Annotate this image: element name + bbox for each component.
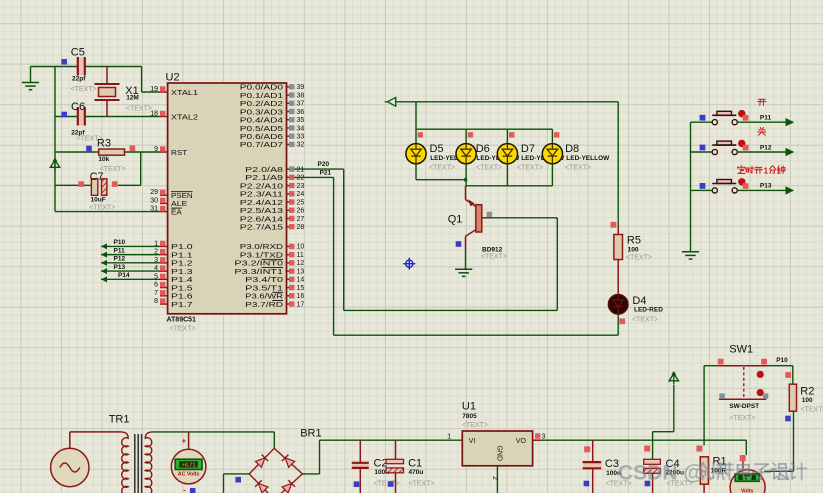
svg-text:TR1: TR1: [109, 414, 130, 426]
pin 21 P2.0/A8: [289, 166, 294, 171]
svg-text:U2: U2: [166, 72, 180, 84]
LED top bus: [415, 102, 417, 144]
wire RST node vertical: [140, 152, 142, 185]
svg-text:XTAL2: XTAL2: [171, 114, 198, 121]
svg-text:P0.1/AD1: P0.1/AD1: [240, 93, 283, 100]
resistor R5: [614, 227, 623, 295]
svg-text:<TEXT>: <TEXT>: [476, 165, 502, 172]
terminal arrow P11: [786, 119, 793, 126]
svg-text:36: 36: [297, 109, 305, 116]
svg-text:GND: GND: [495, 446, 502, 462]
svg-text:14: 14: [297, 277, 305, 284]
svg-text:16: 16: [297, 293, 305, 300]
svg-text:8: 8: [154, 298, 158, 305]
pin 37 P0.2/AD2: [289, 101, 294, 106]
U1 GND pin 2: [496, 466, 498, 493]
svg-text:AT89C51: AT89C51: [167, 317, 197, 324]
svg-text:P2.3/A11: P2.3/A11: [240, 192, 283, 199]
svg-text:P3.1/TXD: P3.1/TXD: [240, 252, 283, 259]
svg-text:38: 38: [297, 92, 305, 99]
svg-text:P1.4: P1.4: [171, 277, 193, 284]
svg-text:VO: VO: [516, 438, 527, 445]
svg-text:D6: D6: [476, 143, 490, 155]
svg-text:<TEXT>: <TEXT>: [517, 165, 543, 172]
pin 13 P3.3/INT1: [289, 268, 294, 273]
svg-text:P12: P12: [760, 144, 772, 151]
ground G2 (Q1): [455, 269, 472, 276]
capacitor C4 electrolytic: [644, 459, 661, 493]
svg-text:27: 27: [297, 216, 305, 223]
svg-text:18: 18: [150, 111, 158, 118]
label kai (red): [758, 99, 766, 105]
svg-text:D7: D7: [521, 143, 535, 155]
capacitor C2: [352, 440, 369, 493]
push button P12: [712, 140, 745, 155]
pin 9 RST: [160, 146, 165, 151]
capacitor C7 10uF: [55, 184, 91, 186]
svg-text:29: 29: [150, 189, 158, 196]
svg-text:XTAL1: XTAL1: [171, 90, 198, 97]
svg-text:470u: 470u: [409, 469, 424, 476]
svg-text:31: 31: [150, 206, 158, 213]
wire C6 row: [55, 116, 78, 118]
pin 33 P0.6/AD6: [289, 133, 294, 138]
svg-text:37: 37: [297, 101, 305, 108]
wire net P21: [333, 177, 335, 335]
svg-text:30: 30: [150, 197, 158, 204]
svg-text:<TEXT>: <TEXT>: [729, 415, 755, 422]
svg-text:P11: P11: [760, 115, 772, 122]
svg-text:P3.6/WR: P3.6/WR: [245, 294, 283, 301]
ground: [30, 67, 32, 83]
wire TR1 to bridge: [153, 431, 275, 433]
svg-text:P3.0/RXD: P3.0/RXD: [240, 244, 283, 251]
svg-text:15: 15: [297, 285, 305, 292]
svg-text:100: 100: [802, 397, 813, 404]
LED D7 yellow: [497, 144, 517, 164]
pin 8 P1.7: [160, 298, 165, 303]
wire BR1 right to regulator: [302, 473, 319, 475]
wire EA row: [55, 211, 160, 213]
svg-text:P0.3/AD3: P0.3/AD3: [240, 109, 283, 116]
svg-text:P1.2: P1.2: [171, 261, 193, 268]
svg-text:D4: D4: [632, 295, 646, 307]
wire net P13: [101, 270, 160, 272]
resistor R1: [700, 457, 708, 493]
svg-text:P3.2/INT0: P3.2/INT0: [234, 261, 283, 268]
wire AC to TR1: [70, 431, 121, 433]
svg-text:39: 39: [297, 84, 305, 91]
resistor R2: [792, 366, 794, 385]
svg-text:<TEXT>: <TEXT>: [409, 481, 435, 488]
svg-text:P3.5/T1: P3.5/T1: [245, 285, 283, 292]
svg-text:3: 3: [542, 434, 546, 441]
svg-text:P14: P14: [118, 272, 130, 279]
svg-text:P20: P20: [318, 161, 330, 168]
wire Q1 collector to ground: [465, 250, 467, 269]
LED bottom bus: [415, 164, 417, 180]
svg-text:Q1: Q1: [448, 214, 463, 226]
capacitor C1 electrolytic: [386, 440, 404, 493]
svg-text:C6: C6: [71, 101, 85, 113]
LED D4 red: [608, 295, 628, 315]
svg-text:32: 32: [297, 142, 305, 149]
capacitor C6: [78, 107, 85, 126]
svg-text:SW-DPST: SW-DPST: [729, 403, 759, 410]
push button P11: [712, 110, 745, 125]
pin 4 P1.3: [160, 265, 165, 270]
svg-text:SW1: SW1: [729, 344, 753, 356]
wire P2.0 to net: [290, 168, 344, 170]
svg-text:P10: P10: [776, 357, 788, 364]
pin 39 P0.0/AD0: [289, 84, 294, 89]
svg-text:P3.3/INT1: P3.3/INT1: [234, 269, 283, 276]
AC voltage source V1: [51, 432, 89, 487]
pin 32 P0.7/AD7: [289, 142, 294, 147]
svg-text:<TEXT>: <TEXT>: [170, 326, 196, 333]
svg-text:P13: P13: [114, 264, 126, 271]
wire net P14: [101, 278, 160, 280]
svg-text:10k: 10k: [98, 156, 109, 163]
svg-text:P2.7/A15: P2.7/A15: [240, 225, 283, 232]
U2 left pins: [160, 92, 168, 304]
capacitor C5: [78, 57, 85, 76]
svg-text:22pf: 22pf: [72, 76, 86, 83]
svg-text:12: 12: [297, 260, 305, 267]
capacitor C3: [583, 440, 602, 493]
svg-text:P1.7: P1.7: [171, 302, 193, 309]
pin 25 P2.4/A12: [289, 199, 294, 204]
pin 11 P3.1/TXD: [289, 252, 294, 257]
svg-text:ALE: ALE: [171, 201, 188, 208]
pin 3 P1.2: [160, 257, 165, 262]
svg-text:<TEXT>: <TEXT>: [71, 86, 97, 93]
wire R2 bottom to voltmeter: [793, 411, 795, 471]
svg-text:P2.6/A14: P2.6/A14: [240, 216, 283, 223]
svg-text:13: 13: [297, 268, 305, 275]
power arrow VCC 2: [673, 374, 675, 385]
pin 12 P3.2/INT0: [289, 260, 294, 265]
transistor Q1 BD912: [466, 186, 491, 250]
left vertical rail: [54, 67, 56, 212]
svg-text:D8: D8: [565, 143, 579, 155]
pin 26 P2.5/A13: [289, 208, 294, 213]
svg-text:RST: RST: [171, 150, 188, 157]
svg-text:7: 7: [154, 290, 158, 297]
svg-text:1: 1: [764, 167, 769, 176]
svg-text:12M: 12M: [126, 95, 139, 102]
buttons left rail: [690, 122, 692, 252]
svg-text:<TEXT>: <TEXT>: [565, 165, 591, 172]
svg-text:28: 28: [297, 224, 305, 231]
svg-text:PSEN: PSEN: [171, 193, 193, 200]
pin 27 P2.6/A14: [289, 216, 294, 221]
svg-text:6: 6: [154, 282, 158, 289]
svg-text:34: 34: [297, 125, 305, 132]
svg-text:<TEXT>: <TEXT>: [89, 205, 115, 212]
wire SW1 left rail down to R1: [703, 366, 705, 446]
svg-text:P21: P21: [320, 170, 332, 177]
svg-text:<TEXT>: <TEXT>: [626, 255, 652, 262]
pin 38 P0.1/AD1: [289, 92, 294, 97]
svg-text:P2.5/A13: P2.5/A13: [240, 208, 283, 215]
svg-text:<TEXT>: <TEXT>: [632, 317, 658, 324]
pin 29 PSEN: [160, 190, 165, 195]
wire C5 row: [31, 66, 78, 68]
pin 2 P1.1: [160, 249, 165, 254]
pin 22 P2.1/A9: [289, 175, 294, 180]
svg-text:<TEXT>: <TEXT>: [462, 422, 488, 429]
ground G1: [22, 83, 39, 90]
svg-text:P3.7/RD: P3.7/RD: [245, 302, 283, 309]
svg-text:2: 2: [491, 476, 498, 480]
LED D8 yellow: [542, 144, 562, 164]
junction: [464, 178, 467, 181]
push button P13: [712, 178, 745, 193]
svg-text:P1.3: P1.3: [171, 269, 193, 276]
label ding-shi-kai-1-fen-zhong (red): [738, 166, 745, 174]
svg-text:P13: P13: [760, 183, 772, 190]
pin 31 EA: [160, 206, 165, 211]
svg-text:EA: EA: [171, 209, 182, 216]
pin 14 P3.4/T0: [289, 277, 294, 282]
svg-text:VI: VI: [469, 438, 476, 445]
svg-text:P0.5/AD5: P0.5/AD5: [240, 126, 283, 133]
svg-text:<TEXT>: <TEXT>: [126, 106, 152, 113]
svg-text:35: 35: [297, 117, 305, 124]
pin 36 P0.3/AD3: [289, 109, 294, 114]
pin 34 P0.5/AD5: [289, 125, 294, 130]
LED D5 yellow: [406, 144, 426, 164]
svg-text:P12: P12: [114, 256, 126, 263]
svg-text:P10: P10: [114, 239, 126, 246]
svg-text:Volts: Volts: [741, 489, 754, 493]
svg-text:P1.6: P1.6: [171, 294, 193, 301]
svg-text:P11: P11: [114, 247, 126, 254]
wire P2.1 to net: [290, 176, 334, 178]
svg-text:33: 33: [297, 133, 305, 140]
wire Q1 base to P20 loop: [490, 217, 557, 219]
svg-text:P0.0/AD0: P0.0/AD0: [240, 85, 283, 92]
svg-text:P0.2/AD2: P0.2/AD2: [240, 101, 283, 108]
output rail: [541, 439, 747, 441]
net arrow feed: [385, 101, 388, 103]
svg-text:24: 24: [297, 191, 305, 198]
svg-text:P1.5: P1.5: [171, 285, 193, 292]
svg-text:<TEXT>: <TEXT>: [429, 165, 455, 172]
svg-text:P1.0: P1.0: [171, 244, 193, 251]
svg-text:LED-YELLOW: LED-YELLOW: [566, 155, 610, 162]
svg-text:9: 9: [154, 146, 158, 153]
svg-text:1: 1: [447, 434, 451, 441]
svg-text:23: 23: [297, 183, 305, 190]
pin 6 P1.5: [160, 282, 165, 287]
svg-text:26: 26: [297, 208, 305, 215]
svg-text:R3: R3: [97, 138, 111, 150]
svg-text:BR1: BR1: [300, 428, 321, 440]
terminal arrow P12: [786, 149, 793, 156]
pin 10 P3.0/RXD: [289, 244, 294, 249]
svg-text:P0.7/AD7: P0.7/AD7: [240, 142, 283, 149]
svg-text:P0.4/AD4: P0.4/AD4: [240, 118, 283, 125]
svg-text:AC Volts: AC Volts: [178, 471, 200, 477]
svg-text:C7: C7: [90, 171, 104, 183]
svg-text:R2: R2: [800, 386, 814, 398]
wire to XTAL1: [141, 67, 143, 93]
svg-text:LED-RED: LED-RED: [634, 307, 663, 314]
svg-text:D5: D5: [430, 143, 444, 155]
crystal X1: [95, 67, 120, 117]
svg-text:+8.71: +8.71: [182, 463, 196, 469]
svg-text:C3: C3: [605, 458, 619, 470]
pin 7 P1.6: [160, 290, 165, 295]
U1 pin 3: [533, 439, 541, 441]
svg-text:CSDN @: CSDN @: [618, 462, 704, 485]
svg-text:P1.1: P1.1: [171, 252, 193, 259]
wire net P11: [101, 254, 160, 256]
resistor R3: [55, 151, 99, 153]
svg-text:21: 21: [297, 166, 305, 173]
pin 35 P0.4/AD4: [289, 117, 294, 122]
svg-text:P2.2/A10: P2.2/A10: [240, 183, 283, 190]
svg-text:R5: R5: [627, 235, 641, 247]
svg-text:BD912: BD912: [482, 247, 503, 254]
svg-text:P0.6/AD6: P0.6/AD6: [240, 134, 283, 141]
pin 28 P2.7/A15: [289, 224, 294, 229]
pin 16 P3.6/WR: [289, 293, 294, 298]
svg-text:P2.0/A8: P2.0/A8: [245, 167, 283, 174]
wire net P12: [101, 262, 160, 264]
LED D6 yellow: [456, 144, 476, 164]
svg-text:U1: U1: [462, 401, 476, 413]
pin 15 P3.5/T1: [289, 285, 294, 290]
power arrow VCC: [54, 160, 56, 171]
ground G3 (buttons): [682, 252, 699, 259]
svg-text:<TEXT>: <TEXT>: [801, 407, 823, 414]
svg-text:10: 10: [297, 244, 305, 251]
wire net P10: [101, 245, 160, 247]
pin 24 P2.3/A11: [289, 191, 294, 196]
svg-text:P2.1/A9: P2.1/A9: [245, 175, 283, 182]
svg-text:+: +: [182, 437, 187, 446]
pin 30 ALE: [160, 198, 165, 203]
svg-text:19: 19: [150, 86, 158, 93]
svg-text:C5: C5: [71, 47, 85, 59]
svg-text:<TEXT>: <TEXT>: [481, 254, 507, 261]
wire net P20: [343, 169, 345, 310]
DC voltmeter: [730, 440, 765, 493]
svg-text:P2.4/A12: P2.4/A12: [240, 200, 283, 207]
wire BR1 left: [224, 473, 250, 475]
origin marker: [403, 258, 415, 270]
pin 1 P1.0: [160, 241, 165, 246]
svg-text:11: 11: [297, 252, 304, 259]
svg-text:C1: C1: [408, 458, 422, 470]
svg-text:-: -: [183, 486, 186, 493]
wire power to C4: [673, 385, 675, 432]
terminal arrow P13: [786, 187, 793, 194]
svg-text:7805: 7805: [462, 413, 477, 420]
pin 18 XTAL2: [160, 111, 165, 116]
pin 17 P3.7/RD: [289, 301, 294, 306]
pin 5 P1.4: [160, 274, 165, 279]
svg-text:17: 17: [297, 301, 305, 308]
pin 23 P2.2/A10: [289, 183, 294, 188]
MCU U2 AT89C51 body: [168, 83, 287, 314]
LED supply rail: [396, 101, 619, 103]
svg-text:100: 100: [628, 247, 639, 254]
svg-text:25: 25: [297, 199, 305, 206]
svg-text:22: 22: [297, 175, 305, 182]
svg-text:10uF: 10uF: [91, 197, 106, 204]
svg-text:P3.4/T0: P3.4/T0: [245, 277, 283, 284]
label guan (red): [758, 128, 766, 136]
pin 19 XTAL1: [160, 86, 165, 91]
